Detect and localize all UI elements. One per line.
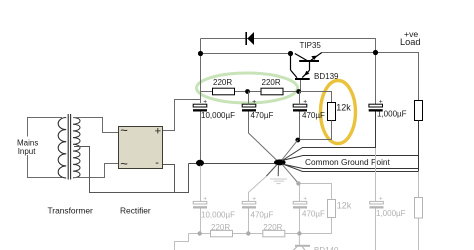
wire rectifier + output riser: [163, 100, 201, 131]
svg-text:Input: Input: [18, 147, 37, 156]
wire faded left jog: [175, 234, 189, 250]
node row junction 2: [296, 89, 301, 94]
wire star to callout top: [282, 156, 419, 161]
svg-text:1,000µF: 1,000µF: [377, 110, 407, 119]
green highlight ellipse around 220R resistors: [197, 73, 298, 103]
capacitor faded C3': [293, 196, 307, 209]
yellow highlight ellipse around 12k resistor: [321, 81, 356, 144]
svg-text:220R: 220R: [263, 223, 282, 232]
resistor faded load': [415, 198, 423, 219]
node C3/12k junction: [295, 138, 300, 143]
node collector junction: [288, 51, 293, 56]
wire secondary bottom to rectifier: [73, 164, 118, 178]
node faded row' junction 2: [297, 231, 301, 235]
wire faded 1000uF' lead: [375, 148, 377, 201]
wire 12k top tap: [300, 92, 332, 103]
wire mains input loop: [28, 118, 63, 178]
wire faded load' lead: [418, 172, 420, 198]
wire callout right edge: [418, 156, 420, 169]
resistor faded R2': [263, 230, 285, 236]
wire 12k bottom tap: [300, 121, 332, 140]
wire faded star to C3' node: [299, 184, 301, 202]
svg-text:TIP35: TIP35: [300, 41, 322, 50]
svg-text:~: ~: [120, 156, 128, 171]
transformer core: [67, 114, 69, 180]
svg-text:Transformer: Transformer: [48, 206, 94, 216]
svg-text:470µF: 470µF: [251, 111, 274, 120]
svg-text:+: +: [303, 196, 307, 203]
capacitor C3 470uF: [293, 92, 307, 112]
node C1 ground junction: [196, 160, 204, 166]
resistor R1 220R: [213, 88, 235, 95]
wire faded star to C2': [249, 177, 267, 202]
svg-text:12k: 12k: [336, 102, 351, 112]
capacitor faded C4': [370, 196, 384, 209]
svg-text:~: ~: [120, 122, 128, 137]
svg-text:1,000µF: 1,000µF: [376, 209, 406, 218]
svg-text:Common Ground Point: Common Ground Point: [305, 157, 391, 167]
svg-text:470µF: 470µF: [302, 210, 325, 219]
wire secondary center tap to ground rail: [74, 147, 189, 193]
wire star to callout bottom: [282, 164, 419, 169]
node faded C1' junction: [198, 231, 202, 235]
wire emitter output: [322, 53, 419, 101]
transistor Q1 TIP35: [295, 53, 322, 71]
wire C3 node to star diagonal: [281, 140, 298, 161]
wire top rail with protection diode: [201, 39, 376, 105]
svg-text:10,000µF: 10,000µF: [201, 211, 235, 220]
wire ground rail: [189, 163, 277, 165]
svg-text:BD140: BD140: [314, 246, 339, 250]
svg-text:Rectifier: Rectifier: [120, 206, 151, 216]
wire C2 ground diagonal: [249, 112, 278, 161]
ground symbol: [270, 165, 287, 183]
svg-text:220R: 220R: [262, 78, 281, 87]
svg-text:+: +: [379, 196, 383, 203]
svg-text:470µF: 470µF: [302, 111, 325, 120]
wire star spoke to C2' dark part: [266, 165, 277, 177]
node output junction: [373, 50, 378, 55]
capacitor C4 1,000uF: [369, 99, 383, 112]
wire collector feed: [201, 53, 291, 55]
node row junction 1: [245, 89, 250, 94]
wire C4 ground return: [282, 112, 376, 162]
node faded C3' junction: [296, 181, 300, 185]
wire load bottom return: [282, 121, 419, 172]
wire C3 ground lead to node: [299, 112, 301, 141]
resistor R3 12k: [328, 103, 336, 121]
node faded row' junction 1: [246, 231, 250, 235]
resistor load: [415, 101, 423, 121]
svg-text:+: +: [252, 99, 256, 106]
svg-text:+: +: [252, 196, 256, 203]
resistor faded R3' 12k: [328, 200, 336, 218]
wire faded row': [189, 233, 300, 235]
wire left + rail vertical: [200, 39, 202, 104]
svg-text:-: -: [155, 157, 159, 169]
svg-text:10,000µF: 10,000µF: [201, 111, 235, 120]
capacitor C1 10,000uF: [193, 99, 207, 112]
svg-text:12k: 12k: [337, 201, 352, 211]
wire star spoke to C3' node: [283, 165, 299, 184]
FADED mirror negative-rail section: [175, 148, 419, 250]
capacitor faded C1': [193, 196, 207, 209]
transformer T1 secondary winding: [73, 118, 80, 178]
transistor Q2 BD139: [291, 55, 310, 92]
rectifier BR1: [119, 122, 163, 171]
wire C1 ground lead: [200, 112, 202, 164]
label Mains Input: [16, 137, 41, 156]
svg-text:+: +: [379, 99, 383, 106]
capacitor C2 470uF: [242, 92, 256, 112]
resistor faded R1': [211, 230, 233, 236]
resistor R2 220R: [261, 88, 283, 95]
svg-text:+: +: [155, 125, 161, 137]
svg-text:BD139: BD139: [314, 72, 339, 81]
wire resistor row: [201, 91, 300, 93]
svg-text:Load: Load: [400, 37, 420, 47]
transistor faded Q2' bars: [293, 235, 310, 250]
capacitor faded C2': [242, 196, 256, 209]
svg-text:+: +: [203, 196, 207, 203]
svg-text:470µF: 470µF: [251, 211, 274, 220]
wire secondary top to rectifier: [73, 118, 118, 133]
wire rectifier - output drop: [163, 165, 175, 193]
wire faded 12k' top tap: [298, 184, 331, 200]
svg-text:220R: 220R: [213, 78, 232, 87]
wire faded C1' lead: [200, 166, 202, 202]
wire faded 12k' bottom tap: [300, 218, 332, 234]
svg-text:220R: 220R: [211, 223, 230, 232]
transformer T1 primary winding: [58, 118, 66, 179]
svg-text:+: +: [203, 99, 207, 106]
diode D1: [246, 32, 254, 45]
svg-text:+: +: [303, 99, 307, 106]
node star ground point: [274, 159, 286, 165]
node junction left rail: [198, 51, 203, 56]
label +ve Load: [400, 29, 420, 47]
